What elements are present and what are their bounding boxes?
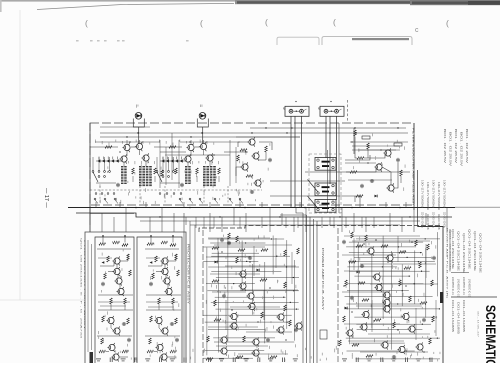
wire net	[208, 328, 265, 330]
svg-text:BO1 . O2 28.5V: BO1 . O2 28.5V	[460, 132, 462, 167]
parts table border	[449, 229, 451, 272]
resistor R49	[107, 256, 110, 262]
wire net	[203, 246, 265, 248]
wire net	[347, 266, 397, 268]
wire net	[347, 283, 424, 285]
transistor Q10	[186, 143, 194, 152]
resistor R147	[404, 267, 411, 270]
indicator lamp PL1	[135, 113, 142, 120]
resistor R88	[147, 350, 154, 353]
svg-text:QO1–O4 2SC1345E: QO1–O4 2SC1345E	[468, 229, 470, 270]
speaker terminal board 2	[315, 183, 336, 196]
svg-text:POWER AMP P.C.B. ASSY (R): POWER AMP P.C.B. ASSY (R)	[446, 228, 449, 299]
resistor R92	[228, 233, 231, 239]
capacitor C91	[175, 338, 179, 342]
terminal pads	[102, 235, 104, 237]
wire net	[216, 308, 300, 310]
wire net	[203, 357, 253, 359]
resistor R68	[161, 241, 168, 244]
svg-text:1O – 14 O5–447: 1O – 14 O5–447	[477, 311, 479, 338]
resistor R18	[175, 168, 178, 174]
resistor R131	[206, 358, 213, 361]
resistor R35	[367, 143, 370, 149]
wire top inner rail 2	[100, 136, 300, 138]
faint header text marks	[76, 40, 189, 43]
lamp PL1 mounting loop	[133, 119, 144, 128]
wire transistor column	[164, 264, 166, 268]
relay assembly outline	[309, 154, 341, 213]
resistor R43	[113, 241, 120, 244]
right border dark blob	[440, 292, 443, 303]
voltage selector table	[421, 180, 445, 231]
svg-text:— 17 —: — 17 —	[43, 188, 49, 208]
small connector box on bus	[320, 330, 327, 339]
page fold line horizontal	[0, 299, 85, 301]
bottom strip components	[96, 358, 432, 363]
svg-text:22O–24OV 5O/6OHz: 22O–24OV 5O/6OHz	[432, 212, 434, 229]
capacitor C36	[396, 158, 400, 162]
parts table rule 1	[451, 272, 469, 274]
value labels	[95, 140, 155, 188]
svg-text:DO1–O4 1S1885: DO1–O4 1S1885	[462, 300, 464, 333]
resistor R89	[170, 350, 177, 353]
resistor R96	[212, 247, 219, 250]
wire vertical	[371, 251, 373, 328]
left page fold line	[19, 10, 21, 300]
resistor R32	[357, 157, 364, 160]
relay switch arm 2	[308, 196, 319, 209]
switch row 2	[95, 193, 182, 195]
svg-text:QO1–O4 2SC1345E: QO1–O4 2SC1345E	[479, 233, 481, 274]
svg-text:POWER AMP P.C.B. ASSY: POWER AMP P.C.B. ASSY	[321, 248, 324, 311]
connector SPEAKERS A	[285, 106, 309, 116]
value labels	[159, 140, 219, 188]
transistor Q71	[160, 267, 168, 276]
wire net	[211, 255, 290, 257]
bus wire B1	[68, 207, 455, 209]
resistor R167	[343, 316, 346, 322]
transistor Q163	[359, 322, 367, 331]
speck band lower top-block	[100, 188, 256, 204]
voltage table upper	[443, 129, 467, 167]
folder tab outline 2	[322, 37, 412, 45]
resistor R151	[345, 280, 348, 286]
transistor Q31	[386, 183, 394, 192]
svg-text:PROTECTOR P.C.B. ASSY: PROTECTOR P.C.B. ASSY	[83, 240, 86, 332]
extra nets right power amp	[342, 236, 438, 352]
diode Da1	[102, 261, 105, 264]
parts list table 1	[451, 229, 481, 274]
capacitor C66	[127, 338, 131, 342]
wire low nets	[145, 335, 180, 337]
transistor Q112	[229, 312, 237, 321]
svg-text:(: (	[265, 17, 268, 27]
capacitor C136	[342, 240, 346, 244]
bus top bends	[296, 208, 303, 213]
extra dots top block	[119, 127, 381, 163]
resistor R104	[260, 279, 267, 282]
wire lower nets	[160, 176, 219, 183]
wire net	[203, 314, 292, 316]
right border label column	[446, 228, 451, 299]
wire net	[345, 308, 440, 310]
protector label column	[80, 238, 87, 340]
transistor Q108	[246, 291, 254, 300]
wire low nets	[97, 335, 132, 337]
resistor R177	[339, 340, 342, 346]
resistor R138	[381, 245, 388, 248]
wire right stub	[417, 170, 419, 227]
capacitor C53	[101, 282, 105, 286]
wire net	[211, 271, 281, 273]
resistor R130	[270, 356, 277, 359]
wire connector drops	[326, 116, 337, 200]
capacitor C08	[116, 183, 120, 187]
wire net	[356, 238, 440, 240]
svg-text:BO1 . O2 28.5V: BO1 . O2 28.5V	[449, 132, 451, 167]
resistor R159	[362, 299, 369, 302]
connector aux marks	[346, 100, 349, 121]
wire lamp drop	[138, 127, 140, 146]
transistor Q117	[219, 346, 227, 355]
diode D41	[375, 195, 378, 198]
filter block left bus wire	[89, 123, 91, 232]
wire vertical	[286, 240, 288, 329]
parts list table 2	[451, 277, 470, 298]
diode array DA2	[185, 166, 191, 184]
resistor R34	[354, 130, 357, 136]
resistor R42	[99, 243, 106, 246]
diode D132	[257, 269, 260, 272]
resistor R171	[432, 316, 435, 322]
transistor Q125	[276, 325, 284, 334]
svg-text:(: (	[333, 17, 336, 27]
resistor R54	[110, 298, 113, 304]
resistor R59	[127, 318, 130, 324]
svg-text:QO1–O4 2SC1345E: QO1–O4 2SC1345E	[457, 231, 459, 272]
bus wire B5	[190, 224, 400, 226]
transistor Q116	[219, 335, 227, 344]
wire vertical	[437, 232, 439, 296]
wire net	[212, 252, 259, 254]
resistor R101	[236, 257, 239, 263]
resistor array RA2	[203, 166, 216, 186]
transistor Q13	[205, 153, 213, 162]
resistor R06	[132, 168, 135, 174]
wire net	[210, 242, 265, 244]
right power amp left edge	[337, 228, 339, 363]
transistor Q56	[106, 316, 114, 325]
wire net	[216, 277, 299, 279]
transistor Q124	[276, 312, 284, 321]
transistor Q164	[345, 328, 353, 337]
resistor R27	[246, 175, 253, 178]
transistor Q73	[164, 287, 172, 296]
transistor Q19	[247, 137, 255, 146]
diode row	[161, 157, 182, 163]
resistor R63	[99, 350, 106, 353]
transistor Q119	[251, 348, 259, 357]
wire vertical	[425, 248, 427, 318]
resistor R98	[261, 249, 268, 252]
resistor R23	[240, 149, 247, 152]
wire rails behind relay	[270, 172, 410, 196]
transistor Q05	[141, 153, 149, 162]
wire net	[215, 296, 286, 298]
resistor R50	[127, 254, 130, 260]
capacitor C28	[250, 190, 254, 194]
capacitor C127	[294, 328, 298, 332]
transistor Q12	[183, 154, 191, 163]
wire vertical	[414, 250, 416, 304]
resistor R72 boxed	[394, 143, 402, 146]
capacitor C179	[392, 355, 396, 359]
wire net	[350, 342, 404, 344]
wire vertical	[264, 262, 266, 343]
wire net	[346, 246, 416, 248]
indicator lamp PL2	[199, 113, 206, 120]
resistor R84	[175, 318, 178, 324]
switch S1 contacts	[156, 171, 174, 182]
wire vertical	[241, 241, 243, 291]
transistor Q165	[401, 312, 409, 321]
power amp block left edge	[202, 230, 204, 363]
resistor R58	[102, 316, 105, 322]
resistor R07	[154, 168, 157, 174]
transistor Q46	[112, 267, 120, 276]
capacitor C102	[248, 256, 252, 260]
transistor Q173	[397, 345, 405, 354]
bus junction dots	[135, 207, 411, 218]
transistor Q113	[229, 321, 237, 330]
svg-text:10O–117V 5O/6OHz: 10O–117V 5O/6OHz	[443, 180, 445, 209]
extra bus verticals	[196, 217, 374, 228]
wire net	[346, 303, 421, 305]
transistor Q109	[247, 302, 255, 311]
wire net	[347, 290, 409, 292]
svg-text:QO1–O4 2SC1345E: QO1–O4 2SC1345E	[462, 233, 464, 274]
resistor R55	[124, 298, 127, 304]
wire protector inner verticals	[88, 240, 92, 352]
transistor Q03	[135, 142, 143, 151]
wire vertical	[293, 260, 295, 341]
extra rails top block	[95, 127, 408, 180]
diode D133	[215, 261, 218, 264]
parts list table 3	[451, 300, 464, 335]
capacitor C111	[222, 294, 226, 298]
transistor Q162	[361, 310, 369, 319]
svg-text:c: c	[415, 27, 419, 34]
diode row	[97, 157, 118, 163]
resistor R01	[105, 146, 112, 149]
transistor Q22	[253, 178, 261, 187]
svg-text:JRC4558D IC-O1: JRC4558D IC-O1	[468, 279, 470, 298]
wire vertical	[357, 242, 359, 309]
resistor R160	[409, 296, 412, 302]
transistor Q150	[374, 283, 382, 292]
capacitor C26	[268, 158, 272, 162]
svg-text:JRC4558D IC-O1: JRC4558D IC-O1	[457, 279, 459, 298]
resistor R105	[284, 282, 287, 288]
capacitor C40	[360, 184, 364, 188]
wire vertical	[252, 264, 254, 315]
terminal pads	[150, 235, 152, 237]
svg-text:10O–117V 5O/6OHz: 10O–117V 5O/6OHz	[437, 182, 439, 211]
resistor R90	[149, 338, 152, 344]
svg-text:(: (	[85, 18, 88, 28]
speaker terminal board 1	[315, 158, 336, 171]
resistor R17	[161, 170, 164, 176]
transistor Q155	[382, 290, 390, 299]
resistor R74	[155, 256, 158, 262]
wire channel L top rail	[90, 146, 118, 148]
capacitor C85	[170, 322, 174, 326]
wire connector drops	[291, 116, 302, 207]
center bus wires	[303, 213, 317, 363]
resistor R137	[356, 245, 363, 248]
wire mid-channel verticals	[160, 133, 236, 188]
wire mid nets	[100, 261, 114, 266]
extra stubs power amps	[218, 236, 436, 340]
extra nets protector	[98, 258, 178, 307]
wire mid nets	[148, 261, 162, 266]
resistor R93	[236, 236, 239, 242]
transistor Q118	[251, 337, 259, 346]
resistor R67	[147, 243, 154, 246]
transistor Q128	[294, 321, 302, 330]
protector dark corner blob	[90, 352, 94, 363]
svg-text:JRC4558D IC-O1: JRC4558D IC-O1	[451, 277, 453, 296]
svg-text:DO1–O4 1S1885: DO1–O4 1S1885	[457, 302, 459, 335]
wire net	[348, 261, 435, 263]
filter amp block outline	[90, 123, 414, 205]
transistor Q45	[112, 256, 120, 265]
transistor Q04	[119, 154, 127, 163]
wire vertical	[206, 247, 208, 355]
wire lower nets	[96, 176, 155, 183]
wire net	[354, 256, 431, 258]
value labels power amp R	[346, 230, 437, 359]
transistor Q70	[160, 256, 168, 265]
protector block outline	[85, 232, 186, 363]
resistor R65	[101, 338, 104, 344]
svg-text:10O–117V 5O/6OHz: 10O–117V 5O/6OHz	[426, 182, 428, 211]
resistor R178	[429, 338, 432, 344]
wire vertical	[349, 260, 351, 344]
transistor Q11	[199, 142, 207, 151]
transistor Q47	[114, 276, 122, 285]
wire diode row rail	[96, 160, 122, 162]
diode D181	[357, 271, 360, 274]
resistor R139	[415, 240, 418, 246]
resistor R176	[366, 355, 373, 358]
filter block right edge wire	[413, 123, 415, 210]
transistor Q81	[154, 316, 162, 325]
transistor Q21	[240, 162, 248, 171]
wire net	[205, 350, 264, 352]
speaker terminal board 3	[315, 200, 336, 213]
transistor Q62	[111, 352, 119, 361]
wire net	[214, 341, 294, 343]
vertical wires left of power amp	[184, 213, 195, 363]
wire switch stubs	[93, 157, 110, 171]
bus vertical drops	[90, 208, 447, 233]
resistor R52	[129, 270, 132, 276]
linkage vertical dashes	[100, 186, 228, 204]
wire net	[357, 328, 423, 330]
wire vertical	[382, 236, 384, 319]
lamp PL1 label	[136, 105, 138, 108]
resistor R75	[175, 254, 178, 260]
resistor R114	[214, 319, 221, 322]
protector sub-box A	[95, 237, 134, 363]
value labels mid	[238, 143, 271, 193]
capacitor C145	[360, 264, 364, 268]
resistor R146	[419, 262, 422, 268]
wire relay verticals	[328, 123, 340, 213]
protector sub-box B	[137, 237, 182, 363]
switch S1 contacts	[92, 171, 110, 182]
wire long rail right edge	[455, 206, 500, 208]
capacitor C158	[350, 296, 354, 300]
capacitor C16	[180, 183, 184, 187]
capacitor C78	[149, 282, 153, 286]
wire net	[205, 321, 290, 323]
svg-text:(: (	[200, 18, 203, 28]
wire interconnect	[131, 146, 136, 148]
transistor Q02	[122, 143, 130, 152]
svg-text:22O–24OV 5O/6OHz: 22O–24OV 5O/6OHz	[437, 214, 439, 231]
transistor Q156	[382, 298, 390, 307]
value labels booster	[353, 134, 405, 191]
wire net	[354, 316, 437, 318]
wire net	[208, 266, 299, 268]
wire interconnect	[195, 146, 200, 148]
wire cluster	[238, 142, 249, 147]
resistor R144	[349, 261, 356, 264]
svg-text:10O–117V 5O/6OHz: 10O–117V 5O/6OHz	[432, 180, 434, 209]
capacitor C95	[220, 238, 224, 242]
bus wire B2	[76, 213, 452, 217]
resistor R33	[350, 171, 357, 174]
wire relay right leads	[345, 155, 370, 160]
svg-text:22O–24OV 5O/6OHz: 22O–24OV 5O/6OHz	[443, 212, 445, 229]
wire lamp drop	[202, 127, 204, 146]
transistor Q57	[112, 326, 120, 335]
resistor R77	[177, 270, 180, 276]
wire net	[347, 350, 415, 352]
resistor R121	[243, 336, 246, 342]
transistor Q72	[162, 276, 170, 285]
resistor R120	[207, 336, 210, 342]
svg-text:QO1 . O8 2SC1345 . E . F , G: QO1 . O8 2SC1345 . E . F , G . 2SA733	[80, 238, 83, 340]
wire top inner rail 3	[250, 127, 406, 129]
svg-text:BO1 . O2 28.5V: BO1 . O2 28.5V	[465, 129, 467, 164]
resistor R79	[158, 298, 161, 304]
wire vertical	[401, 264, 403, 306]
resistor R168	[374, 319, 381, 322]
transistor Q143	[385, 253, 393, 262]
power amp block top edge	[199, 226, 309, 233]
capacitor C148	[432, 256, 436, 260]
resistor R25	[237, 155, 240, 161]
bus wire B4	[140, 220, 420, 222]
wire net	[349, 252, 422, 254]
value labels protector	[150, 243, 179, 359]
transistor Q82	[160, 326, 168, 335]
extra nets mid power amp	[206, 238, 298, 354]
wire top net	[97, 248, 131, 250]
